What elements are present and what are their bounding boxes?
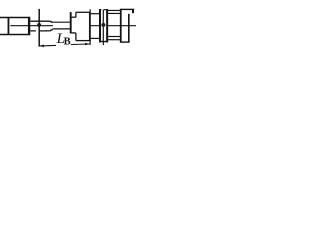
thimble top edge xyxy=(99,9,108,11)
centerline axis xyxy=(10,25,136,27)
left extension line xyxy=(38,9,40,47)
junction dot on extension line xyxy=(37,23,41,27)
pivot dot on thimble mid line xyxy=(101,23,105,27)
left arrowhead xyxy=(39,45,44,48)
neck top line xyxy=(30,20,50,22)
step bar xyxy=(70,12,72,33)
section C outer top line xyxy=(108,9,120,11)
mid section bottom line xyxy=(71,32,76,34)
dimension line right segment xyxy=(71,43,90,46)
left box right end bar xyxy=(28,17,30,35)
large section bottom line xyxy=(76,40,91,42)
right extension line xyxy=(89,9,91,45)
cap top line xyxy=(120,8,134,10)
large section top line xyxy=(76,11,91,13)
mid section top line xyxy=(72,16,76,18)
thimble bottom edge xyxy=(99,41,108,43)
dimension line left segment xyxy=(39,44,56,47)
cap left bar xyxy=(120,9,122,42)
left box divider bar xyxy=(7,17,9,35)
thimble left bar xyxy=(99,9,101,42)
svg-text:B: B xyxy=(64,36,71,47)
cap bottom line xyxy=(120,41,130,43)
right arrowhead xyxy=(85,43,90,46)
rod top line xyxy=(53,21,71,23)
rod bottom line xyxy=(53,28,71,30)
section B top line xyxy=(91,13,99,15)
taper top xyxy=(50,21,53,22)
taper bottom xyxy=(50,29,53,31)
section C outer bottom line xyxy=(108,39,120,41)
neck bottom line xyxy=(30,30,50,32)
background xyxy=(0,0,136,57)
section B bottom line xyxy=(91,37,99,39)
large section right bar xyxy=(89,12,91,40)
thimble right bar xyxy=(106,9,108,42)
cap top-right tab xyxy=(132,9,134,13)
section C inner top line xyxy=(108,12,120,14)
left box bottom line xyxy=(0,34,30,36)
thimble mid line xyxy=(102,10,104,45)
step vertical bottom xyxy=(75,33,77,41)
section C inner bottom line xyxy=(108,36,120,38)
left box top line xyxy=(0,17,30,19)
cap right edge bar xyxy=(128,14,130,42)
step vertical top xyxy=(75,12,77,17)
